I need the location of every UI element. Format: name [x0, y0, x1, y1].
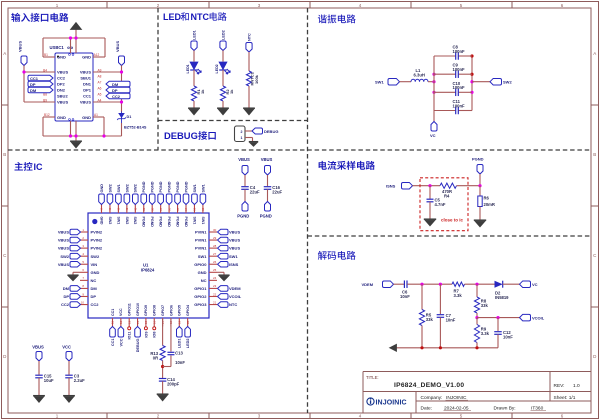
- svg-text:SW2: SW2: [125, 217, 129, 225]
- svg-text:28: 28: [213, 244, 217, 248]
- svg-text:VBUS: VBUS: [80, 100, 91, 105]
- svg-text:VBUS: VBUS: [229, 246, 240, 251]
- wire R6 to ground: [479, 207, 481, 220]
- svg-text:DP2: DP2: [57, 82, 66, 87]
- wire NTC to RNTC1: [248, 52, 250, 71]
- svg-text:REV:: REV:: [554, 383, 565, 389]
- svg-text:0R: 0R: [153, 355, 158, 360]
- wire R13 to C14: [162, 361, 164, 379]
- svg-text:NC: NC: [201, 278, 207, 283]
- capacitor C14 200pF: [159, 377, 180, 387]
- U1 bottom pin stubs and names: [111, 303, 190, 326]
- svg-text:VBUS: VBUS: [229, 230, 240, 235]
- svg-text:33: 33: [193, 207, 197, 211]
- port ISNS to U1 pin 26: [218, 261, 239, 267]
- port CC1: [28, 75, 53, 81]
- svg-text:SW2: SW2: [108, 184, 112, 192]
- svg-text:NTC: NTC: [248, 33, 252, 41]
- junction dots cap bank left rail: [432, 73, 435, 94]
- port SW2 to U1 pin 43: [107, 184, 113, 204]
- resistor R8 33k: [474, 297, 488, 313]
- capacitor C5 4.7nF: [427, 198, 446, 208]
- svg-text:VBUS: VBUS: [32, 345, 44, 350]
- port PGND to U1 pin 36: [166, 181, 172, 204]
- wire GPIO6 to C13: [170, 318, 172, 352]
- power symbol VBUS input top: [71, 23, 82, 30]
- svg-text:CC2: CC2: [61, 302, 70, 307]
- port DEBUG: [252, 128, 278, 134]
- svg-text:CC2: CC2: [112, 94, 121, 99]
- svg-text:VCC: VCC: [119, 338, 123, 346]
- svg-text:PGND: PGND: [168, 181, 172, 192]
- red dashed close-to-ic box: [420, 178, 468, 231]
- svg-text:SW2: SW2: [134, 184, 138, 192]
- svg-text:GPIO8: GPIO8: [153, 305, 157, 316]
- section title 主控IC: [14, 162, 43, 172]
- svg-text:VBUS: VBUS: [115, 41, 120, 52]
- svg-text:27: 27: [213, 252, 217, 256]
- U1 right pin stubs and names: [194, 228, 217, 307]
- port VBUS to U1 pin 2: [58, 237, 81, 243]
- title text IP6824_DEMO_V1.00: [366, 375, 464, 389]
- svg-text:SBU1: SBU1: [80, 76, 91, 81]
- power port VC: [430, 122, 437, 139]
- U1 top pin stubs and names: [99, 205, 205, 228]
- wire debug pin1 to ground: [245, 138, 253, 142]
- wire R7 to D2: [465, 283, 495, 285]
- svg-text:PGND: PGND: [472, 157, 484, 162]
- svg-text:CC1: CC1: [30, 76, 39, 81]
- ground C5: [424, 219, 436, 226]
- port PGND to U1 pin 39: [141, 181, 147, 204]
- pin numbers USBC1: [43, 53, 102, 117]
- svg-text:C13: C13: [175, 351, 183, 356]
- svg-text:DM: DM: [112, 82, 119, 87]
- power port VBUS above C4: [238, 157, 250, 175]
- ground C14: [157, 394, 169, 401]
- wire cap bank left rail: [433, 56, 435, 111]
- port CC1 bottom: [110, 327, 116, 347]
- resistor R13 0R: [150, 346, 165, 361]
- LED LED1: [186, 62, 201, 74]
- wire VBUS to C4: [244, 175, 246, 186]
- svg-text:DM: DM: [30, 88, 37, 93]
- wire cap bank right rail: [471, 56, 473, 111]
- wire SW1 to L1: [400, 81, 412, 83]
- svg-text:CC2: CC2: [57, 76, 66, 81]
- port SW1 to U1 pin 33: [192, 184, 198, 204]
- svg-text:21: 21: [213, 300, 217, 304]
- svg-text:PGND: PGND: [176, 181, 180, 192]
- junction dot C5 node: [428, 184, 431, 187]
- svg-text:PGND: PGND: [142, 181, 146, 192]
- svg-text:Company:: Company:: [421, 395, 443, 401]
- svg-text:SW1: SW1: [201, 184, 205, 192]
- port VC decode: [520, 281, 538, 288]
- resistor R6 20mR: [478, 196, 495, 208]
- svg-text:SW2: SW2: [133, 217, 137, 225]
- capacitor C3 2.2uF: [65, 374, 85, 384]
- svg-text:GND: GND: [198, 270, 207, 275]
- wire C16 to PGND: [267, 189, 269, 201]
- wire L1 to cap bank: [428, 81, 434, 83]
- junction dot C7 node: [439, 283, 442, 286]
- svg-text:D1: D1: [127, 115, 132, 119]
- capacitor C15 10uF: [35, 374, 54, 384]
- svg-text:6.3uH: 6.3uH: [414, 73, 425, 78]
- svg-text:BZT52-B14S: BZT52-B14S: [124, 126, 147, 130]
- power port PGND below C16: [260, 202, 272, 219]
- wire bottom GND loop: [43, 117, 122, 136]
- svg-text:10nF: 10nF: [503, 335, 513, 340]
- svg-text:A8: A8: [98, 74, 102, 78]
- svg-text:100nF: 100nF: [453, 49, 466, 54]
- svg-text:200pF: 200pF: [167, 381, 180, 386]
- svg-text:10: 10: [81, 300, 85, 304]
- svg-text:20mR: 20mR: [484, 202, 495, 207]
- svg-text:GND: GND: [91, 270, 100, 275]
- port DM to U1 pin 8: [63, 286, 81, 292]
- svg-text:B: B: [593, 152, 596, 157]
- svg-text:SW2: SW2: [91, 254, 100, 259]
- svg-text:PGND: PGND: [159, 181, 163, 192]
- svg-text:100nF: 100nF: [453, 103, 466, 108]
- resistor R2 1k: [220, 86, 233, 101]
- svg-text:LED: LED: [163, 12, 182, 22]
- svg-text:10nF: 10nF: [446, 318, 456, 323]
- ground arrow decode left: [390, 344, 397, 351]
- port DEBUG bottom: [135, 327, 141, 353]
- wire C15 to ground: [38, 378, 40, 395]
- junction dots top: [69, 36, 72, 39]
- section title 电流采样电路: [319, 161, 375, 170]
- svg-text:GPIO4: GPIO4: [186, 305, 190, 316]
- svg-text:37: 37: [159, 207, 163, 211]
- port CC2 to U1 pin 10: [61, 302, 81, 308]
- svg-text:30: 30: [213, 228, 217, 232]
- ground U1 right GND pin: [217, 272, 230, 281]
- capacitor C7 10nF: [437, 313, 456, 323]
- svg-text:42: 42: [117, 207, 121, 211]
- port SW1: [375, 78, 400, 85]
- diode D1 BZT52-B14S: [117, 112, 147, 130]
- injoinic logo: [367, 398, 407, 407]
- port SW1 to U1 pin 27: [218, 253, 239, 259]
- wire C3 to ground: [68, 378, 70, 395]
- diode D2 IN5819: [495, 281, 510, 300]
- svg-text:VBUS: VBUS: [238, 157, 250, 162]
- svg-text:DN1: DN1: [83, 82, 92, 87]
- ground LED1 branch: [188, 108, 200, 115]
- wire R2 to ground: [222, 101, 224, 108]
- port DM left: [28, 87, 53, 93]
- svg-text:4.7nF: 4.7nF: [435, 202, 446, 207]
- svg-text:100k: 100k: [254, 74, 259, 84]
- wire C14 to ground: [162, 381, 164, 393]
- title block: [363, 372, 591, 414]
- wire VBUS to C15: [38, 361, 40, 375]
- svg-text:1k: 1k: [200, 89, 205, 94]
- resistor R4 470R: [440, 183, 457, 198]
- svg-text:CC1: CC1: [111, 309, 115, 316]
- svg-text:GPIO7: GPIO7: [161, 305, 165, 316]
- section title 谐振电路: [318, 14, 356, 23]
- port ISNS: [386, 182, 413, 189]
- svg-text:IP6824: IP6824: [141, 268, 155, 273]
- svg-text:IO11: IO11: [128, 332, 132, 340]
- power port VBUS right: [115, 41, 125, 72]
- svg-text:IP6824_DEMO_V1.00: IP6824_DEMO_V1.00: [394, 382, 464, 389]
- svg-text:3.3k: 3.3k: [481, 331, 490, 336]
- svg-text:IN5819: IN5819: [495, 295, 509, 300]
- svg-text:10nF: 10nF: [175, 360, 185, 365]
- port VBUS to U1 pin 5: [58, 261, 81, 267]
- port VBUS to U1 pin 29: [218, 237, 241, 243]
- resistor R9 3.3k: [474, 325, 489, 343]
- svg-text:A6: A6: [98, 86, 102, 90]
- svg-text:GND: GND: [82, 115, 91, 120]
- port SW2: [490, 78, 512, 85]
- rev cell: [554, 383, 581, 389]
- wire VCC to C3: [68, 361, 70, 375]
- svg-text:DP: DP: [91, 294, 97, 299]
- svg-text:NTC: NTC: [229, 302, 237, 307]
- date cell: [421, 406, 547, 412]
- wire C13 to R13 node: [163, 356, 171, 367]
- port LED2: [220, 30, 226, 50]
- capacitor C13 10nF: [167, 351, 185, 366]
- svg-text:CC2: CC2: [91, 302, 100, 307]
- wire node to C7: [439, 284, 441, 314]
- svg-text:34: 34: [184, 207, 188, 211]
- net label IO11 no-erc: [128, 327, 132, 340]
- port NTC to U1 pin 21: [218, 302, 238, 308]
- svg-text:VBUS: VBUS: [58, 238, 69, 243]
- svg-text:44: 44: [100, 207, 104, 211]
- svg-text:VBUS: VBUS: [57, 70, 68, 75]
- port VDEM: [362, 281, 394, 288]
- svg-text:12: 12: [119, 320, 123, 324]
- svg-text:SW1: SW1: [193, 184, 197, 192]
- wire VDEM to C6: [394, 283, 405, 285]
- net label IO8 no-erc: [153, 327, 157, 338]
- capacitor C9 100nF: [434, 63, 472, 78]
- junction dots decode rail: [420, 346, 478, 349]
- port LED2 bottom: [185, 327, 191, 349]
- junction dot R8 bottom: [475, 316, 478, 319]
- svg-text:1k: 1k: [229, 89, 234, 94]
- wire ISNS to node: [413, 185, 441, 187]
- svg-text:19: 19: [178, 320, 182, 324]
- svg-text:PGND: PGND: [175, 217, 179, 228]
- port VBUS to U1 pin 30: [218, 229, 241, 235]
- svg-text:VBUS: VBUS: [80, 70, 91, 75]
- power port VCC above C3: [62, 345, 72, 362]
- svg-text:VBUS: VBUS: [261, 157, 273, 162]
- svg-text:VBUS: VBUS: [58, 230, 69, 235]
- svg-text:PVIN2: PVIN2: [91, 238, 103, 243]
- svg-text:VBUS: VBUS: [58, 246, 69, 251]
- power port PGND below C4: [237, 202, 249, 219]
- wire R1 to ground: [193, 101, 195, 108]
- svg-text:10nF: 10nF: [400, 294, 410, 299]
- svg-text:PVIN2: PVIN2: [91, 230, 103, 235]
- svg-text:100nF: 100nF: [453, 85, 466, 90]
- svg-text:SW2: SW2: [60, 254, 69, 259]
- wire R5 to bottom rail: [421, 326, 423, 348]
- svg-text:25: 25: [213, 268, 217, 272]
- ground LED2 branch: [217, 108, 229, 115]
- wire node to R6: [479, 186, 481, 196]
- junction dot R6 node: [478, 184, 481, 187]
- svg-text:33k: 33k: [481, 303, 489, 308]
- svg-text:DP: DP: [30, 82, 36, 87]
- svg-text:38: 38: [150, 207, 154, 211]
- ground U1 left GND pin: [67, 272, 80, 281]
- svg-text:A7: A7: [98, 80, 102, 84]
- svg-text:B1: B1: [44, 53, 48, 57]
- svg-text:SW2: SW2: [108, 217, 112, 225]
- svg-text:VCC: VCC: [62, 345, 71, 350]
- svg-text:A: A: [593, 51, 596, 56]
- wire VCOIL rail: [477, 317, 520, 319]
- IC U1 IP6824 body: [88, 213, 209, 318]
- svg-text:VCC: VCC: [119, 308, 123, 316]
- svg-text:B: B: [3, 152, 6, 157]
- ground debug: [249, 142, 258, 147]
- port CC2 right: [106, 93, 130, 99]
- svg-text:33k: 33k: [426, 317, 434, 322]
- svg-text:PGND: PGND: [184, 181, 188, 192]
- svg-text:41: 41: [125, 207, 129, 211]
- junction dot R13 C13 C14: [161, 365, 164, 368]
- svg-text:SW1: SW1: [117, 184, 121, 192]
- svg-text:GPIO1: GPIO1: [194, 286, 207, 291]
- svg-text:DN2: DN2: [57, 88, 66, 93]
- U1 left pin stubs and names: [80, 228, 103, 307]
- wire VBUS to C16: [267, 175, 269, 186]
- svg-text:2: 2: [241, 130, 243, 134]
- svg-text:100nF: 100nF: [453, 67, 466, 72]
- wire VBUS right rail: [93, 72, 122, 136]
- wire D2 to VC: [503, 283, 520, 285]
- svg-text:GND: GND: [82, 55, 91, 60]
- svg-text:11: 11: [111, 321, 115, 324]
- power port PGND sampling: [472, 157, 484, 175]
- resistor R1 1k: [191, 86, 204, 101]
- company cell: [421, 395, 469, 401]
- svg-text:PVIN1: PVIN1: [195, 238, 207, 243]
- svg-text:VCOIL: VCOIL: [532, 316, 545, 321]
- section title DEBUG接口: [164, 130, 216, 141]
- ground input bottom: [70, 141, 82, 148]
- resistor R5 33k: [419, 310, 433, 326]
- port VCOIL: [520, 314, 545, 321]
- svg-text:22uF: 22uF: [250, 190, 260, 195]
- svg-text:SW2: SW2: [503, 80, 512, 85]
- svg-text:20: 20: [186, 320, 190, 324]
- wire to SW2: [472, 81, 490, 83]
- junction dots cap bank right rail: [470, 54, 473, 94]
- wire node to R8: [476, 284, 478, 297]
- svg-text:24: 24: [213, 276, 217, 280]
- svg-text:SBU2: SBU2: [57, 94, 68, 99]
- port SW2 to U1 pin 40: [133, 184, 139, 204]
- svg-text:26: 26: [213, 260, 217, 264]
- LED LED2: [215, 62, 230, 74]
- svg-text:USBC1: USBC1: [50, 45, 65, 50]
- svg-text:VBUS: VBUS: [57, 100, 68, 105]
- svg-text:LED1: LED1: [178, 339, 182, 349]
- svg-text:R6: R6: [484, 196, 490, 201]
- svg-text:GPIO3: GPIO3: [194, 302, 207, 307]
- capacitor C6 10nF: [400, 280, 410, 299]
- svg-text:IC: IC: [34, 162, 44, 172]
- svg-text:CC1: CC1: [111, 339, 115, 347]
- port LED1: [191, 30, 197, 50]
- wire PGND to node: [479, 174, 481, 186]
- wire C7 to bottom rail: [439, 317, 441, 348]
- svg-text:PVIN1: PVIN1: [195, 230, 207, 235]
- junction dot C12 node: [496, 316, 499, 319]
- svg-text:14: 14: [136, 320, 140, 324]
- junction dots bottom: [69, 134, 72, 137]
- svg-text:GND: GND: [57, 115, 66, 120]
- port NTC: [246, 33, 252, 52]
- svg-text:GPIO11: GPIO11: [128, 303, 132, 316]
- svg-text:SW1: SW1: [201, 217, 205, 225]
- port DP right: [106, 87, 130, 93]
- svg-text:NC: NC: [91, 278, 97, 283]
- svg-text:GPIO0: GPIO0: [194, 262, 207, 267]
- port VCC bottom: [118, 327, 124, 347]
- svg-text:1.0: 1.0: [573, 383, 580, 389]
- wire LED to R2: [222, 70, 224, 86]
- svg-text:36: 36: [167, 207, 171, 211]
- svg-text:22uF: 22uF: [272, 190, 282, 195]
- svg-text:A12: A12: [94, 53, 100, 57]
- wire RNTC1 to ground: [248, 86, 250, 108]
- svg-text:VBUS: VBUS: [229, 238, 240, 243]
- svg-text:PVIN2: PVIN2: [91, 246, 103, 251]
- port PGND to U1 pin 37: [158, 181, 164, 204]
- svg-text:SW1: SW1: [116, 217, 120, 225]
- wire C12 branch: [497, 318, 499, 331]
- wire C12 to bottom rail: [477, 334, 498, 348]
- svg-text:ISNS: ISNS: [386, 184, 396, 189]
- svg-text:PGND: PGND: [237, 214, 249, 219]
- svg-text:43: 43: [108, 207, 112, 211]
- svg-text:LED1: LED1: [193, 30, 197, 40]
- ground NTC branch: [243, 108, 255, 115]
- svg-text:15: 15: [144, 320, 148, 324]
- port SW1 to U1 pin 32: [200, 184, 206, 204]
- port VBUS to U1 pin 3: [58, 245, 81, 251]
- capacitor C10 100nF: [434, 81, 472, 96]
- junction dot R5 node: [420, 283, 423, 286]
- svg-text:GND: GND: [99, 217, 103, 225]
- svg-text:23: 23: [213, 284, 217, 288]
- svg-text:IO8: IO8: [153, 332, 157, 338]
- svg-text:Date:: Date:: [421, 406, 432, 412]
- svg-text:40: 40: [134, 207, 138, 211]
- wire LED1 to LED: [193, 51, 195, 62]
- port GND to U1 pin 44: [99, 184, 105, 205]
- ground C15: [33, 396, 45, 403]
- wire LED2 to LED: [222, 51, 224, 62]
- port PGND to U1 pin 35: [175, 181, 181, 204]
- junction dots VBUS right: [120, 70, 123, 73]
